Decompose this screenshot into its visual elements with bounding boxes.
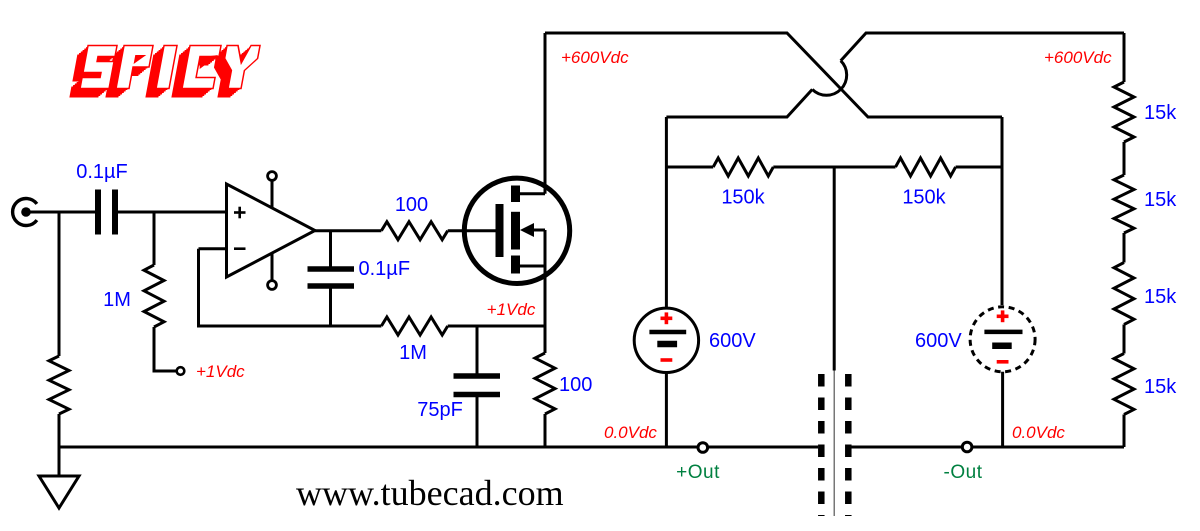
wire drain to +600V rail bbox=[544, 33, 547, 194]
wire bbox=[1123, 142, 1126, 175]
svg-text:75pF: 75pF bbox=[417, 399, 463, 421]
svg-text:600V: 600V bbox=[709, 330, 756, 352]
ESL stator left (dashed) bbox=[818, 374, 825, 516]
resistor 100 source bbox=[535, 353, 555, 414]
svg-text:150k: 150k bbox=[902, 187, 946, 209]
ground bbox=[39, 447, 79, 508]
voltage source 600V right (dashed) bbox=[970, 307, 1035, 372]
wire gate bbox=[448, 229, 496, 232]
wire ground rail right bbox=[851, 446, 1124, 449]
wire right 15k chain vertical top bbox=[1123, 33, 1126, 82]
resistor 150k left bbox=[713, 158, 773, 176]
svg-text:15k: 15k bbox=[1144, 102, 1177, 124]
wire +600Vdc left rail bbox=[545, 33, 1002, 117]
svg-text:600V: 600V bbox=[915, 330, 962, 352]
svg-text:1M: 1M bbox=[103, 289, 131, 311]
resistor 15k #1 bbox=[1114, 82, 1134, 142]
wire center tap down to diaphragm bbox=[833, 167, 836, 371]
svg-text:+Out: +Out bbox=[676, 462, 720, 483]
wire grid branch down bbox=[153, 212, 156, 265]
svg-text:100: 100 bbox=[395, 194, 428, 216]
node +1Vdc terminal bbox=[177, 367, 185, 375]
svg-text:0.0Vdc: 0.0Vdc bbox=[1012, 423, 1065, 442]
wire 150k right to vertical bbox=[956, 166, 1002, 169]
svg-text:100: 100 bbox=[559, 374, 592, 396]
wire feedback to source node bbox=[448, 325, 545, 328]
resistor 100 gate bbox=[381, 222, 447, 240]
node -Out bbox=[962, 442, 972, 452]
wire battery right to rail bbox=[1001, 372, 1004, 447]
wire 1M to terminal bbox=[154, 327, 176, 371]
ESL diaphragm bbox=[833, 371, 835, 517]
resistor 1M grid bbox=[144, 265, 164, 327]
op-amp U1 bbox=[227, 184, 316, 277]
svg-text:www.tubecad.com: www.tubecad.com bbox=[296, 473, 564, 513]
logo SPICY bbox=[69, 46, 260, 98]
svg-text:0.0Vdc: 0.0Vdc bbox=[604, 423, 657, 442]
wire 15k chain to rail bbox=[1123, 415, 1126, 448]
wire hop arc bbox=[812, 61, 846, 96]
wire left bias vertical bbox=[665, 117, 668, 308]
voltage source 600V left bbox=[634, 308, 698, 372]
capacitor 75pF bbox=[454, 326, 501, 447]
svg-text:+1Vdc: +1Vdc bbox=[196, 362, 245, 381]
input jack J1 bbox=[13, 199, 37, 226]
svg-text:-Out: -Out bbox=[944, 462, 983, 483]
resistor 1M feedback bbox=[381, 317, 447, 335]
svg-text:150k: 150k bbox=[721, 187, 765, 209]
capacitor 0.1µF feedback bbox=[308, 231, 355, 326]
svg-text:15k: 15k bbox=[1144, 189, 1177, 211]
resistor 15k #4 bbox=[1114, 354, 1134, 415]
wire bbox=[1123, 233, 1126, 263]
wire right bias vertical bbox=[1001, 117, 1004, 305]
capacitor C1 0.1µF bbox=[98, 190, 115, 235]
resistor 15k #2 bbox=[1114, 175, 1134, 233]
svg-text:0.1µF: 0.1µF bbox=[76, 161, 128, 183]
wire input shunt branch down bbox=[58, 212, 61, 356]
svg-text:1M: 1M bbox=[399, 342, 427, 364]
wire op-amp output bbox=[315, 229, 381, 232]
svg-text:15k: 15k bbox=[1144, 286, 1177, 308]
wire ground rail left bbox=[59, 446, 818, 449]
MOSFET Q1 bbox=[464, 178, 569, 283]
svg-text:+1Vdc: +1Vdc bbox=[487, 300, 536, 319]
svg-text:+600Vdc: +600Vdc bbox=[561, 48, 629, 67]
wire input to capacitor bbox=[26, 211, 95, 214]
wire bbox=[1123, 325, 1126, 354]
wire op-amp inverting input bbox=[199, 247, 227, 250]
node +Out bbox=[698, 443, 708, 453]
svg-text:+600Vdc: +600Vdc bbox=[1044, 48, 1112, 67]
ESL stator right (dashed) bbox=[845, 374, 852, 516]
svg-text:15k: 15k bbox=[1144, 376, 1177, 398]
wire feedback loop left bbox=[199, 249, 382, 326]
wire +600Vdc right rail with hop bbox=[841, 33, 1124, 61]
wire battery left to rail bbox=[665, 373, 668, 448]
wire capacitor to op-amp + input bbox=[118, 211, 227, 214]
resistor 150k right bbox=[896, 158, 956, 176]
wire shunt to ground rail bbox=[58, 414, 61, 447]
op-amp bottom power pin bbox=[268, 253, 277, 289]
op-amp top power pin bbox=[268, 172, 277, 208]
resistor 15k #3 bbox=[1114, 263, 1134, 325]
wire source resistor to rail bbox=[544, 414, 547, 447]
wire source down bbox=[544, 266, 547, 353]
resistor input shunt bbox=[49, 356, 69, 414]
svg-text:0.1µF: 0.1µF bbox=[359, 258, 411, 280]
resistor row wires bbox=[666, 166, 713, 169]
wire between 150k resistors bbox=[773, 166, 895, 169]
